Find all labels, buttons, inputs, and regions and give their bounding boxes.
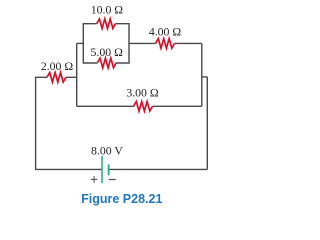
wire 3-ohm branch	[77, 105, 202, 107]
resistor 4.00 ohm	[156, 39, 175, 49]
wire parallel-box top edge	[83, 23, 130, 25]
wire right outer vertical	[206, 77, 208, 169]
svg-text:8.00 V: 8.00 V	[91, 144, 123, 158]
wire 4-ohm branch	[129, 42, 202, 44]
resistor 5.00 ohm	[97, 58, 116, 68]
battery 8.00 V positive plate	[101, 156, 103, 183]
battery 8.00 V negative plate	[108, 164, 110, 175]
wire parallel-box bottom edge	[83, 62, 130, 64]
wire bottom left	[35, 168, 102, 170]
svg-text:5.00 Ω: 5.00 Ω	[91, 45, 124, 59]
wire 2-ohm branch	[36, 76, 78, 78]
svg-text:3.00 Ω: 3.00 Ω	[126, 86, 159, 100]
wire inner right vertical	[201, 43, 203, 106]
svg-text:Figure P28.21: Figure P28.21	[81, 192, 162, 206]
wire left stub to parallel box	[77, 42, 84, 44]
wire bottom right	[109, 168, 208, 170]
label battery plus	[91, 176, 98, 183]
svg-text:10.0 Ω: 10.0 Ω	[91, 3, 124, 17]
resistor 2.00 ohm	[47, 73, 66, 83]
wire right stub	[202, 76, 208, 78]
svg-text:2.00 Ω: 2.00 Ω	[41, 59, 74, 73]
wire parallel-box right edge	[128, 24, 130, 63]
resistor 3.00 ohm	[134, 102, 153, 112]
wire parallel-box left edge	[82, 24, 84, 63]
label battery minus	[109, 179, 116, 181]
svg-text:4.00 Ω: 4.00 Ω	[149, 24, 182, 38]
resistor 10.0 ohm	[97, 19, 116, 29]
wire left outer vertical	[35, 77, 37, 170]
wire left middle vertical	[76, 43, 78, 106]
